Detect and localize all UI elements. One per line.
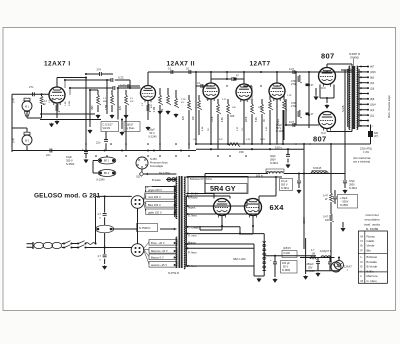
svg-text:100 m: 100 m bbox=[256, 175, 263, 178]
svg-text:12(A)X7 Ⅱ: 12(A)X7 Ⅱ bbox=[320, 250, 332, 253]
svg-text:f1 f2: f1 f2 bbox=[321, 87, 326, 90]
svg-text:5R4 GY: 5R4 GY bbox=[210, 184, 236, 193]
svg-text:B.Blu: B.Blu bbox=[367, 269, 375, 273]
svg-text:G11: G11 bbox=[136, 176, 141, 179]
svg-text:Bleu 160 V: Bleu 160 V bbox=[148, 203, 161, 207]
svg-text:220K: 220K bbox=[246, 116, 248, 122]
svg-text:R. Nero: R. Nero bbox=[188, 252, 197, 255]
svg-text:22n: 22n bbox=[96, 141, 101, 145]
svg-text:N.1540: N.1540 bbox=[97, 179, 106, 182]
svg-text:Verde: Verde bbox=[367, 244, 375, 248]
svg-text:N 3909: N 3909 bbox=[282, 269, 291, 272]
svg-text:12AX7 I: 12AX7 I bbox=[44, 60, 71, 67]
svg-text:G. Nero: G. Nero bbox=[188, 215, 197, 218]
svg-text:giallo 120 V: giallo 120 V bbox=[148, 211, 162, 215]
svg-text:4.4K: 4.4K bbox=[202, 126, 204, 131]
svg-text:12AT7: 12AT7 bbox=[250, 60, 271, 67]
svg-text:0.27: 0.27 bbox=[289, 120, 295, 124]
svg-text:27Ω: 27Ω bbox=[291, 104, 296, 108]
svg-text:G. nero: G. nero bbox=[188, 235, 197, 238]
svg-text:15K: 15K bbox=[239, 150, 244, 154]
svg-text:0.27: 0.27 bbox=[289, 67, 295, 71]
svg-text:N.5057 R: N.5057 R bbox=[349, 52, 360, 56]
svg-text:B.leu - 20 V: B.leu - 20 V bbox=[151, 241, 165, 245]
svg-text:47K: 47K bbox=[183, 115, 185, 120]
svg-text:N.50/15: N.50/15 bbox=[313, 167, 322, 170]
svg-text:Bianco 0 V: Bianco 0 V bbox=[151, 256, 164, 260]
svg-text:B.Rosst: B.Rosst bbox=[367, 255, 378, 259]
svg-text:0.22: 0.22 bbox=[118, 76, 124, 80]
svg-text:B.Rosso: B.Rosso bbox=[188, 197, 198, 200]
svg-text:N. 15286: N. 15286 bbox=[366, 227, 379, 231]
svg-text:B.Giallo: B.Giallo bbox=[367, 260, 378, 264]
svg-text:Giallo: Giallo bbox=[367, 239, 375, 243]
svg-text:N 3911: N 3911 bbox=[281, 187, 289, 190]
svg-text:nero 200 V: nero 200 V bbox=[148, 195, 161, 199]
svg-text:(1)6: (1)6 bbox=[370, 87, 375, 90]
svg-text:0.5M: 0.5M bbox=[106, 105, 108, 110]
svg-text:F: F bbox=[361, 269, 363, 273]
svg-text:0.1: 0.1 bbox=[168, 67, 172, 71]
svg-text:274: 274 bbox=[97, 68, 102, 72]
svg-text:Rosso: Rosso bbox=[367, 234, 376, 238]
svg-text:N.F.B.: N.F.B. bbox=[341, 105, 345, 112]
svg-text:12AX7: 12AX7 bbox=[344, 265, 352, 269]
svg-text:N: N bbox=[361, 239, 363, 243]
svg-text:C. Nero: C. Nero bbox=[367, 279, 378, 283]
svg-text:100V: 100V bbox=[260, 139, 266, 141]
svg-text:B: B bbox=[361, 244, 363, 248]
svg-text:807: 807 bbox=[321, 52, 335, 61]
svg-text:1.5K: 1.5K bbox=[65, 101, 67, 106]
svg-text:N.2500: N.2500 bbox=[340, 204, 349, 207]
svg-text:27n: 27n bbox=[29, 85, 34, 89]
svg-text:Blu: Blu bbox=[367, 248, 372, 252]
svg-text:GELOSO mod. G 281: GELOSO mod. G 281 bbox=[34, 193, 101, 200]
svg-text:15A: 15A bbox=[193, 138, 197, 141]
svg-text:N 6752 R: N 6752 R bbox=[168, 271, 179, 275]
svg-text:0.1: 0.1 bbox=[186, 67, 190, 71]
svg-text:(4)4: (4)4 bbox=[370, 82, 375, 85]
svg-text:N.7528 N: N.7528 N bbox=[139, 226, 150, 230]
svg-text:MΩ: MΩ bbox=[103, 101, 107, 103]
svg-text:807: 807 bbox=[313, 135, 327, 144]
svg-text:Argent.: Argent. bbox=[188, 207, 196, 210]
svg-text:(16)4: (16)4 bbox=[370, 104, 376, 107]
svg-text:2.2M: 2.2M bbox=[154, 107, 156, 112]
svg-text:(1)1: (1)1 bbox=[370, 114, 375, 117]
svg-text:27Ω: 27Ω bbox=[291, 82, 296, 86]
svg-text:B.Verde: B.Verde bbox=[367, 265, 378, 269]
svg-text:BF 1: BF 1 bbox=[104, 160, 110, 163]
svg-text:(8)8: (8)8 bbox=[370, 98, 375, 101]
svg-text:B.Giallo: B.Giallo bbox=[152, 179, 161, 182]
svg-text:47K: 47K bbox=[151, 104, 153, 108]
svg-text:0.036: 0.036 bbox=[284, 252, 291, 255]
svg-text:(16)5: (16)5 bbox=[370, 71, 376, 74]
svg-text:1W: 1W bbox=[325, 219, 329, 222]
svg-text:N.1240: N.1240 bbox=[276, 130, 285, 133]
svg-text:(47): (47) bbox=[374, 135, 378, 138]
svg-text:350 V: 350 V bbox=[66, 159, 73, 163]
svg-text:10K: 10K bbox=[232, 107, 236, 109]
svg-text:N.3502: N.3502 bbox=[66, 162, 75, 166]
svg-text:0.1: 0.1 bbox=[197, 82, 201, 85]
svg-text:4.4K: 4.4K bbox=[222, 117, 224, 122]
svg-text:22n: 22n bbox=[46, 153, 51, 157]
svg-text:M: M bbox=[44, 103, 46, 106]
svg-text:4%: 4% bbox=[181, 102, 184, 104]
svg-text:E: E bbox=[361, 265, 363, 269]
svg-text:(76456): (76456) bbox=[350, 56, 359, 60]
svg-text:0.47: 0.47 bbox=[13, 138, 16, 143]
svg-text:N 3912: N 3912 bbox=[349, 187, 358, 190]
svg-text:47K: 47K bbox=[120, 105, 122, 110]
svg-text:6V 0.05A: 6V 0.05A bbox=[159, 171, 170, 175]
svg-text:trasf. uscita: trasf. uscita bbox=[364, 222, 380, 226]
svg-text:M 2: M 2 bbox=[25, 140, 30, 143]
svg-text:Fonovaligia: Fonovaligia bbox=[150, 165, 163, 168]
svg-text:BF 2: BF 2 bbox=[104, 172, 110, 175]
svg-text:22Ω (47Ω): 22Ω (47Ω) bbox=[360, 147, 372, 151]
svg-text:1M5: 1M5 bbox=[92, 105, 94, 110]
svg-text:16µF: 16µF bbox=[66, 155, 72, 159]
svg-text:7%: 7% bbox=[242, 128, 244, 131]
svg-text:1K: 1K bbox=[264, 119, 266, 122]
svg-text:0.47: 0.47 bbox=[13, 98, 16, 103]
svg-text:6X4: 6X4 bbox=[270, 203, 285, 212]
svg-text:Marrone -15 V: Marrone -15 V bbox=[151, 249, 168, 253]
svg-text:2.2K: 2.2K bbox=[181, 99, 186, 101]
svg-text:2.2K: 2.2K bbox=[287, 95, 292, 97]
svg-text:Marrone: Marrone bbox=[367, 274, 379, 278]
svg-text:12AX7 II: 12AX7 II bbox=[167, 60, 195, 67]
svg-text:8.2K: 8.2K bbox=[256, 117, 258, 122]
svg-text:P: P bbox=[361, 248, 363, 252]
svg-text:by Pass: by Pass bbox=[126, 127, 136, 130]
svg-text:secondario: secondario bbox=[364, 218, 379, 222]
svg-text:100K: 100K bbox=[212, 116, 214, 122]
svg-text:± 4%: ± 4% bbox=[363, 150, 370, 154]
svg-text:Colori del: Colori del bbox=[365, 213, 378, 217]
svg-text:(2)5/15: (2)5/15 bbox=[283, 247, 291, 250]
svg-text:(4)2: (4)2 bbox=[370, 109, 375, 112]
svg-text:1M: 1M bbox=[162, 109, 164, 112]
svg-text:M 1: M 1 bbox=[25, 106, 30, 109]
svg-text:N60 C.200: N60 C.200 bbox=[233, 257, 246, 261]
svg-text:non a richiesta): non a richiesta) bbox=[353, 161, 370, 164]
svg-text:N.1240: N.1240 bbox=[149, 136, 158, 139]
svg-text:(8)3: (8)3 bbox=[370, 77, 375, 80]
svg-text:Mors. d’uscita ampl.: Mors. d’uscita ampl. bbox=[387, 95, 391, 118]
svg-text:N.3912: N.3912 bbox=[270, 162, 279, 165]
svg-text:grigio-240 V: grigio-240 V bbox=[148, 188, 162, 192]
svg-text:Vol M1: Vol M1 bbox=[103, 127, 111, 130]
svg-text:B.Rosco 6V - 0.6 A: B.Rosco 6V - 0.6 A bbox=[190, 177, 212, 181]
svg-text:(4)7: (4)7 bbox=[370, 66, 375, 69]
svg-text:arancio +15 V: arancio +15 V bbox=[151, 263, 167, 267]
svg-text:305: 305 bbox=[230, 114, 235, 118]
